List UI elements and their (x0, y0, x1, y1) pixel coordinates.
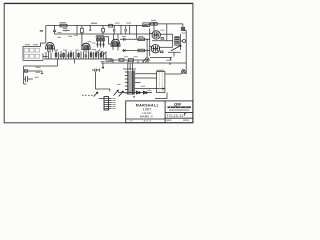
resistor R7 dropper (109, 24, 113, 27)
tone stack (96, 35, 107, 56)
logo QW (168, 101, 191, 110)
capacitor C8 (63, 28, 70, 31)
label 56K (91, 23, 97, 24)
node junction dots (54, 25, 171, 63)
switch S1 mains (94, 90, 124, 96)
title block (126, 101, 193, 123)
triode V1b (82, 43, 90, 52)
resistor R6 10K dropper (40, 22, 78, 38)
svg-text:TO-23-11: TO-23-11 (167, 114, 184, 118)
resistor R15 on bus (106, 59, 114, 63)
svg-text:QW: QW (174, 101, 181, 106)
transformer T2 output (150, 34, 186, 60)
resistor R23 (138, 49, 145, 52)
pentode V4 EL34 (150, 26, 173, 56)
potentiometer VR bias (143, 58, 149, 63)
wire B+ rail 2 (55, 33, 151, 35)
wire to title area (155, 93, 167, 99)
wire standby (96, 72, 110, 92)
input jacks J1-J4 (23, 43, 48, 60)
resistor R2 (24, 70, 44, 74)
capacitor C14 (92, 69, 99, 72)
wire drop (76, 26, 78, 34)
wire join (146, 39, 148, 60)
node junction above title (133, 96, 134, 97)
transformer T1 mains (118, 63, 165, 94)
capacitor C7 (53, 26, 56, 34)
wire dashed mains (82, 94, 93, 96)
wire PI out upper (120, 38, 150, 40)
wire drops rail2 (121, 26, 130, 34)
resistor R24 (119, 59, 124, 62)
wire grid PI (106, 37, 112, 44)
pentode V5 EL34 (150, 45, 173, 53)
wire heater bus (101, 61, 187, 69)
wire lower left (24, 59, 75, 84)
wire to lamp (165, 73, 181, 75)
resistor R8 plate (81, 26, 84, 44)
wire PI out lower (122, 50, 150, 52)
capacitor C12 (124, 38, 125, 41)
svg-text:MARK II: MARK II (140, 115, 153, 119)
capacitor C9 (114, 26, 115, 34)
lamp LP1 (181, 70, 186, 74)
title text MARSHALL 1987 LEAD MARK II (136, 104, 159, 119)
wire B+ rail top (46, 24, 183, 26)
triode V3 phase inverter (111, 34, 120, 51)
value labels (58, 20, 187, 91)
svg-text:1 BOX 16: 1 BOX 16 (142, 121, 152, 123)
wire screen feed (166, 24, 168, 41)
wire drop (136, 26, 138, 39)
fuse F2 HT (181, 24, 186, 31)
wire HT down (185, 31, 187, 75)
resistor R22 (138, 36, 145, 41)
capacitor C10 (125, 26, 126, 34)
resistor R30 screen (151, 23, 158, 26)
triode V1a (46, 26, 55, 53)
capacitor C11 can label (143, 23, 150, 27)
connector PL1 (99, 97, 116, 110)
title small row (129, 121, 152, 123)
drawing number TO-23-11 (166, 113, 189, 120)
cathode network band (44, 49, 108, 59)
capacitor C15 can (157, 70, 165, 93)
wire junction (89, 26, 91, 31)
capacitor C1 filter (24, 76, 39, 84)
resistor R25 (129, 59, 134, 62)
wire bias bus (108, 59, 150, 61)
capacitor C13 (124, 49, 125, 52)
resistor R27 screen stopper (152, 38, 173, 53)
resistor R9 (102, 26, 105, 34)
